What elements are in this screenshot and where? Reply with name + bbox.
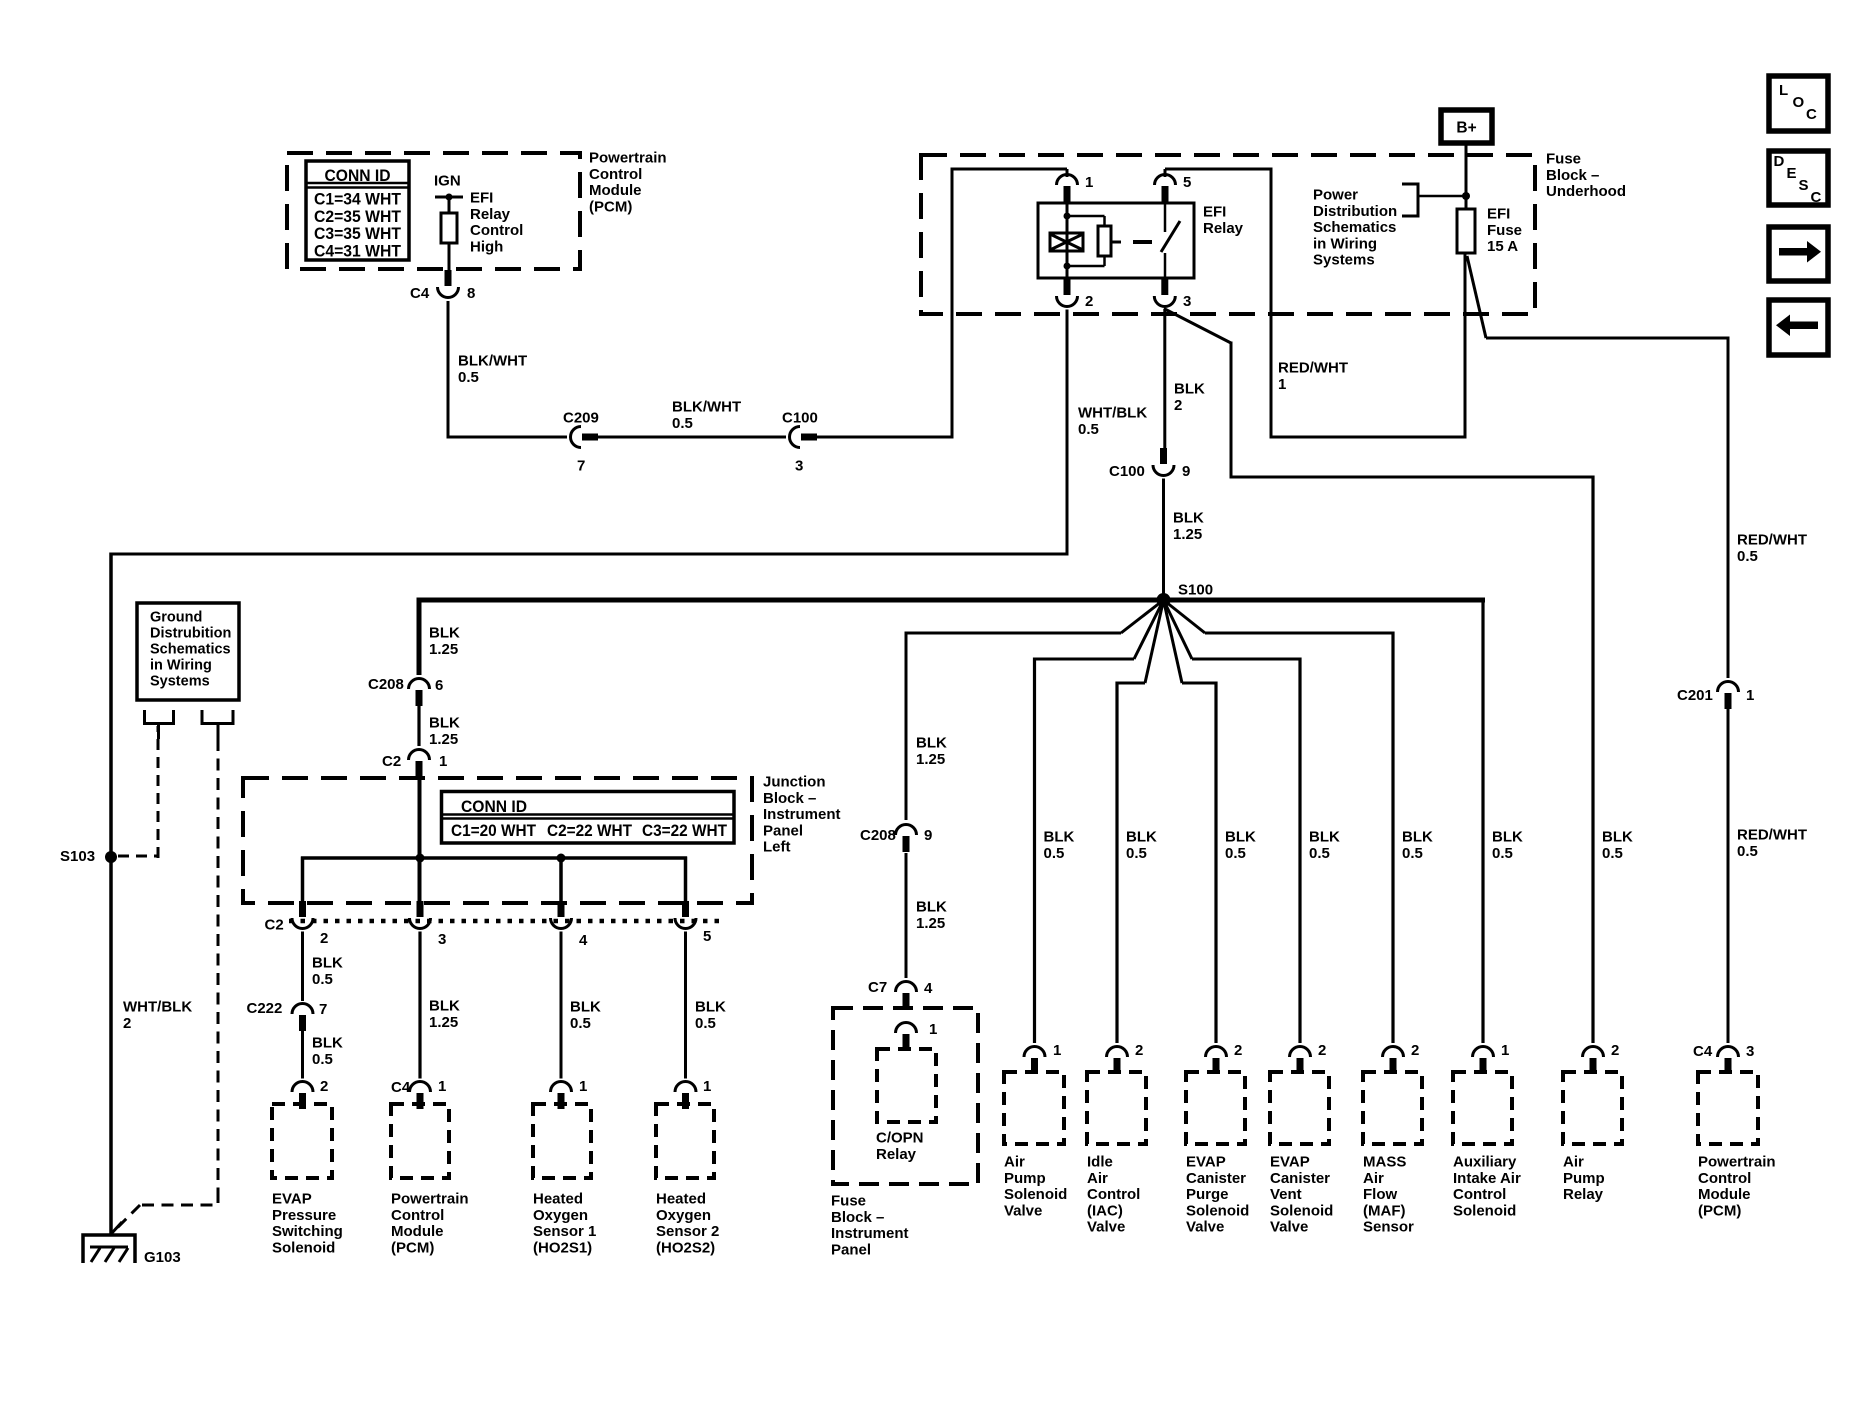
svg-text:Solenoid: Solenoid <box>1186 1202 1249 1219</box>
wire: short drop to relay pin 1 <box>1066 169 1069 177</box>
svg-text:2: 2 <box>1085 293 1093 310</box>
wire: S100 bus left to junction block column <box>417 598 1167 603</box>
svg-text:Auxiliary: Auxiliary <box>1453 1154 1517 1171</box>
svg-text:(MAF): (MAF) <box>1363 1202 1405 1219</box>
svg-text:1: 1 <box>579 1078 587 1095</box>
svg-text:BLK: BLK <box>1602 829 1633 846</box>
svg-text:Module: Module <box>589 182 642 199</box>
wire WHT/BLK 0.5: relay pin 2 down and across to S103 branch <box>1066 310 1069 556</box>
svg-text:Solenoid: Solenoid <box>272 1239 335 1256</box>
svg-text:Sensor 2: Sensor 2 <box>656 1223 719 1240</box>
table CONN ID (junction block): header separator <box>442 813 735 816</box>
component box: Heated Oxygen Sensor 1 <box>533 1104 591 1178</box>
connector air pump relay pin 2 <box>1583 1047 1604 1058</box>
wire: parallel resistor branch bottom <box>1103 256 1106 266</box>
switch: relay contact upper stub from pin 5 <box>1164 203 1167 232</box>
svg-text:L: L <box>1779 82 1788 99</box>
component box: Air Pump Relay <box>1563 1072 1622 1144</box>
svg-text:High: High <box>470 238 503 255</box>
svg-text:1.25: 1.25 <box>429 641 458 658</box>
svg-text:Canister: Canister <box>1270 1170 1330 1187</box>
svg-text:5: 5 <box>1183 174 1191 191</box>
svg-text:BLK: BLK <box>1044 829 1075 846</box>
svg-text:O: O <box>1793 94 1805 111</box>
wire BLK 1.25 C208/9 down to C7/4 <box>905 853 908 978</box>
wire WHT/BLK 2 left vertical to ground <box>109 553 113 1236</box>
svg-text:in Wiring: in Wiring <box>1313 235 1377 252</box>
svg-text:Switching: Switching <box>272 1223 343 1240</box>
svg-text:Distribution: Distribution <box>1313 203 1397 220</box>
svg-text:1: 1 <box>703 1078 711 1095</box>
wire: air pump relay column vertical <box>1591 476 1594 1044</box>
svg-text:1: 1 <box>1278 376 1286 393</box>
svg-text:(PCM): (PCM) <box>391 1239 434 1256</box>
node IGN junction dot <box>446 194 453 201</box>
wire: relay pin 3 diagonal branch to air pump relay feed <box>1164 309 1231 344</box>
svg-text:3: 3 <box>795 458 803 475</box>
svg-text:EFI: EFI <box>470 190 493 207</box>
svg-text:BLK: BLK <box>312 1035 343 1052</box>
relay coil symbol (rect with X) <box>1050 233 1083 251</box>
wire BLK 0.5 HO2S1 column down <box>560 932 563 1079</box>
svg-text:1: 1 <box>1746 687 1754 704</box>
svg-text:0.5: 0.5 <box>458 369 479 386</box>
svg-text:Solenoid: Solenoid <box>1453 1202 1516 1219</box>
connector relay pin 2 <box>1064 279 1071 295</box>
svg-text:0.5: 0.5 <box>1402 845 1423 862</box>
svg-text:4: 4 <box>579 932 588 949</box>
table CONN ID (PCM): header separator double line <box>306 182 409 185</box>
svg-text:Powertrain: Powertrain <box>391 1191 469 1208</box>
svg-text:Distrubition: Distrubition <box>150 626 231 642</box>
wire: S100 fan to EVAP vent column <box>1164 600 1193 659</box>
svg-text:BLK: BLK <box>429 715 460 732</box>
connector C2 pin 2 (junction block) <box>299 901 306 917</box>
nav icon: DESC box <box>1769 151 1828 205</box>
wire: parallel resistor branch top <box>1067 215 1105 218</box>
svg-text:Canister: Canister <box>1186 1170 1246 1187</box>
svg-text:BLK: BLK <box>1225 829 1256 846</box>
svg-text:C3=22 WHT: C3=22 WHT <box>642 821 728 840</box>
svg-text:Fuse: Fuse <box>1487 222 1522 239</box>
svg-text:0.5: 0.5 <box>570 1015 591 1032</box>
module box: Fuse Block - Instrument Panel dashed outline <box>833 1008 978 1184</box>
connector IAC valve pin 2 <box>1107 1047 1128 1058</box>
svg-text:6: 6 <box>435 677 443 694</box>
svg-text:C4: C4 <box>1693 1043 1713 1060</box>
svg-text:Sensor: Sensor <box>1363 1219 1414 1236</box>
svg-text:Ground: Ground <box>150 610 202 626</box>
fuse EFI Fuse 15 A element <box>1457 209 1475 253</box>
connector C201 pin 1 <box>1718 682 1739 693</box>
svg-text:2: 2 <box>1135 1042 1143 1059</box>
connector C2 pin 4 (junction block) <box>558 901 565 917</box>
switch: relay contact blade <box>1161 221 1180 252</box>
wire BLK 0.5 from C222/7 down <box>301 1031 304 1079</box>
svg-text:Air: Air <box>1004 1154 1025 1171</box>
connector C2 pin 5 (junction block) <box>682 901 689 917</box>
connector C208 pin 9 <box>896 825 917 836</box>
svg-text:Module: Module <box>1698 1186 1751 1203</box>
svg-text:WHT/BLK: WHT/BLK <box>1078 405 1147 422</box>
wire: driver element down to PCM box edge / C4 pin 8 <box>448 243 451 270</box>
node: bus junction at pin 4 column <box>557 854 566 863</box>
svg-text:0.5: 0.5 <box>312 971 333 988</box>
node splice S100 <box>1157 593 1171 607</box>
module box: Ground Distribution Schematics reference box <box>137 603 239 700</box>
svg-text:C: C <box>1811 189 1822 206</box>
svg-text:0.5: 0.5 <box>1737 548 1758 565</box>
connector C222 pin 7 <box>292 1004 313 1014</box>
svg-text:BLK: BLK <box>916 899 947 916</box>
svg-text:Heated: Heated <box>533 1191 583 1208</box>
svg-text:Schematics: Schematics <box>150 642 231 658</box>
svg-text:Pump: Pump <box>1004 1170 1046 1187</box>
wire BLK 1.25: C100 pin 9 down to splice S100 <box>1162 479 1165 601</box>
connector C100 pin 9 (inline) <box>1160 448 1167 464</box>
svg-text:in Wiring: in Wiring <box>150 658 212 674</box>
connector C4 pin 8 (PCM output) <box>445 270 452 286</box>
svg-text:Air: Air <box>1087 1170 1108 1187</box>
svg-text:0.5: 0.5 <box>1602 845 1623 862</box>
connector HO2S2 pin 1 <box>675 1082 696 1093</box>
svg-text:C1=34 WHT: C1=34 WHT <box>314 190 402 209</box>
svg-text:C4: C4 <box>391 1079 411 1096</box>
svg-text:RED/WHT: RED/WHT <box>1278 360 1348 377</box>
svg-text:Schematics: Schematics <box>1313 219 1396 236</box>
node: relay internal junction top <box>1064 213 1071 220</box>
svg-text:C100: C100 <box>782 410 818 427</box>
svg-text:S: S <box>1799 177 1809 194</box>
svg-text:Fuse: Fuse <box>1546 151 1581 168</box>
svg-text:Powertrain: Powertrain <box>1698 1154 1776 1171</box>
svg-text:1.25: 1.25 <box>916 915 945 932</box>
svg-text:1: 1 <box>439 753 447 770</box>
svg-text:Oxygen: Oxygen <box>656 1207 711 1224</box>
table CONN ID (junction block): outer frame <box>442 792 735 844</box>
svg-text:Block –: Block – <box>831 1209 884 1226</box>
svg-text:Power: Power <box>1313 187 1358 204</box>
wire: dashed link S103 to left bracket <box>118 855 158 858</box>
svg-text:8: 8 <box>467 285 475 302</box>
svg-text:3: 3 <box>1746 1043 1754 1060</box>
component box: Mass Air Flow Sensor <box>1363 1072 1422 1144</box>
svg-text:D: D <box>1774 153 1785 170</box>
connector EVAP pressure switching solenoid pin 2 <box>292 1082 313 1093</box>
svg-text:B+: B+ <box>1456 120 1476 137</box>
wire RED/WHT 0.5 down to PCM C4 pin 3 <box>1727 709 1730 1043</box>
svg-text:2: 2 <box>320 1078 328 1095</box>
svg-text:BLK: BLK <box>916 735 947 752</box>
connector C7 pin 4 <box>896 982 917 993</box>
connector C208 pin 6 <box>409 679 430 690</box>
svg-text:Vent: Vent <box>1270 1186 1302 1203</box>
svg-text:Idle: Idle <box>1087 1154 1113 1171</box>
wire: horizontal run to C209 <box>447 436 450 438</box>
svg-text:Valve: Valve <box>1004 1202 1042 1219</box>
wire: actuator dashed link to switch <box>1133 240 1152 244</box>
wire BLK 2: relay pin 3 down to C100 pin 9 <box>1163 310 1166 449</box>
power terminal B+ box <box>1441 110 1492 143</box>
node splice S103 <box>105 851 117 863</box>
svg-text:Solenoid: Solenoid <box>1270 1202 1333 1219</box>
svg-text:E: E <box>1787 165 1797 182</box>
svg-text:9: 9 <box>1182 463 1190 480</box>
svg-text:RED/WHT: RED/WHT <box>1737 827 1807 844</box>
module box: Fuse Block - Underhood dashed outline <box>921 155 1535 314</box>
wire: dashed link right bracket down to G103 <box>217 739 220 1191</box>
svg-text:Systems: Systems <box>1313 252 1375 269</box>
svg-text:Pressure: Pressure <box>272 1207 336 1224</box>
svg-text:0.5: 0.5 <box>1492 845 1513 862</box>
svg-text:BLK: BLK <box>1402 829 1433 846</box>
svg-text:RED/WHT: RED/WHT <box>1737 532 1807 549</box>
svg-text:C2=22 WHT: C2=22 WHT <box>547 821 633 840</box>
svg-text:Heated: Heated <box>656 1191 706 1208</box>
component box: Auxiliary Intake Air Control Solenoid <box>1453 1072 1512 1144</box>
component box: EVAP Canister Vent Solenoid Valve <box>1270 1072 1329 1144</box>
svg-text:BLK: BLK <box>429 998 460 1015</box>
nav icon: next arrow box <box>1769 227 1828 281</box>
wire: S100 fan to IAC column <box>1145 600 1164 683</box>
svg-text:Control: Control <box>470 222 523 239</box>
svg-text:1.25: 1.25 <box>916 751 945 768</box>
svg-text:0.5: 0.5 <box>1737 843 1758 860</box>
svg-text:Junction: Junction <box>763 774 826 791</box>
svg-text:S100: S100 <box>1178 582 1213 599</box>
svg-text:C222: C222 <box>247 1000 283 1017</box>
svg-text:5: 5 <box>703 928 711 945</box>
connector C209 pin 7 (inline) <box>571 427 582 448</box>
svg-text:1: 1 <box>438 1078 446 1095</box>
svg-text:3: 3 <box>1183 293 1191 310</box>
connector PCM C4 pin 1 <box>410 1082 431 1093</box>
svg-text:1: 1 <box>1053 1042 1061 1059</box>
svg-text:Control: Control <box>1698 1170 1751 1187</box>
svg-text:EVAP: EVAP <box>272 1191 312 1208</box>
svg-text:C100: C100 <box>1109 463 1145 480</box>
wire BLK 0.5 from C2/2 to C222/7 <box>301 932 304 1002</box>
svg-text:0.5: 0.5 <box>1309 845 1330 862</box>
wire: dotted connector row line C2 <box>289 919 721 924</box>
svg-text:Control: Control <box>391 1207 444 1224</box>
node: bus junction at pin 3 column <box>416 854 425 863</box>
svg-text:Panel: Panel <box>763 822 803 839</box>
svg-text:C209: C209 <box>563 410 599 427</box>
module box: Junction Block - Instrument Panel Left dashed outline <box>243 778 752 903</box>
connector EVAP canister vent solenoid pin 2 <box>1290 1047 1311 1058</box>
svg-text:BLK: BLK <box>570 999 601 1016</box>
svg-text:0.5: 0.5 <box>1225 845 1246 862</box>
svg-text:CONN ID: CONN ID <box>325 166 391 185</box>
wire RED/WHT 0.5: fuse diagonal feed to right side <box>1467 256 1486 338</box>
svg-text:1: 1 <box>1085 174 1093 191</box>
svg-text:Control: Control <box>589 166 642 183</box>
wire: S100 fan to MAF column <box>1164 600 1206 633</box>
relay box: C/OPN Relay dashed outline <box>877 1049 936 1122</box>
svg-text:2: 2 <box>1411 1042 1419 1059</box>
svg-text:BLK: BLK <box>1492 829 1523 846</box>
svg-text:S103: S103 <box>60 848 95 865</box>
wire: IGN dot down to driver element <box>448 197 451 213</box>
svg-text:Pump: Pump <box>1563 1170 1605 1187</box>
svg-text:Underhood: Underhood <box>1546 183 1626 200</box>
svg-text:Block –: Block – <box>763 790 816 807</box>
wire BLK 1.25 segment C208/6 to C2/1 <box>417 706 420 746</box>
svg-text:Powertrain: Powertrain <box>589 150 667 167</box>
svg-text:Air: Air <box>1363 1170 1384 1187</box>
svg-text:2: 2 <box>1234 1042 1242 1059</box>
node: junction of power distribution tap <box>1462 192 1470 200</box>
svg-text:1: 1 <box>1501 1042 1509 1059</box>
svg-text:0.5: 0.5 <box>312 1051 333 1068</box>
svg-text:BLK: BLK <box>695 999 726 1016</box>
svg-text:BLK: BLK <box>1126 829 1157 846</box>
wire: C100 pin3 to relay pin 1 riser <box>817 436 954 439</box>
connector relay pin 1 <box>1057 175 1078 186</box>
wire: B+ down to EFI fuse <box>1465 143 1468 209</box>
svg-text:Relay: Relay <box>1203 220 1244 237</box>
svg-text:C201: C201 <box>1677 687 1713 704</box>
svg-text:BLK: BLK <box>1309 829 1340 846</box>
svg-text:Block –: Block – <box>1546 167 1599 184</box>
bracket: ground distribution right tab <box>202 710 233 724</box>
svg-text:BLK: BLK <box>312 955 343 972</box>
svg-text:BLK: BLK <box>429 625 460 642</box>
svg-text:Purge: Purge <box>1186 1186 1229 1203</box>
connector C2 pin 3 (junction block) <box>417 901 424 917</box>
wire: junction block internal column from C2/1 down to pin 3 <box>418 777 422 901</box>
svg-text:(HO2S1): (HO2S1) <box>533 1239 592 1256</box>
svg-text:C7: C7 <box>868 979 887 996</box>
connector C2 pin 1 <box>409 750 430 761</box>
svg-text:C2=35 WHT: C2=35 WHT <box>314 207 402 226</box>
svg-text:7: 7 <box>577 458 585 475</box>
connector fuse block IP pin 1 <box>896 1023 917 1034</box>
svg-text:0.5: 0.5 <box>1126 845 1147 862</box>
component box: Idle Air Control Valve <box>1087 1072 1146 1144</box>
svg-text:2: 2 <box>1174 397 1182 414</box>
svg-text:C3=35 WHT: C3=35 WHT <box>314 224 402 243</box>
svg-text:WHT/BLK: WHT/BLK <box>123 999 192 1016</box>
svg-text:EFI: EFI <box>1487 206 1510 223</box>
svg-text:Systems: Systems <box>150 674 210 690</box>
svg-text:Control: Control <box>1087 1186 1140 1203</box>
svg-text:Valve: Valve <box>1186 1219 1224 1236</box>
node: relay internal junction bottom <box>1064 263 1071 270</box>
svg-text:C: C <box>1806 106 1817 123</box>
table CONN ID (PCM): outer frame <box>306 161 409 260</box>
svg-text:2: 2 <box>320 930 328 947</box>
connector relay pin 3 <box>1161 279 1168 295</box>
wire BLK 0.5 HO2S2 column down <box>684 932 687 1079</box>
svg-text:C208: C208 <box>860 827 896 844</box>
svg-text:(PCM): (PCM) <box>589 198 632 215</box>
svg-text:Solenoid: Solenoid <box>1004 1186 1067 1203</box>
component box: Heated Oxygen Sensor 2 <box>656 1104 714 1178</box>
svg-text:Intake Air: Intake Air <box>1453 1170 1521 1187</box>
svg-text:C4: C4 <box>410 285 430 302</box>
svg-text:C/OPN: C/OPN <box>876 1130 924 1147</box>
svg-text:Relay: Relay <box>1563 1186 1604 1203</box>
svg-text:MASS: MASS <box>1363 1154 1406 1171</box>
svg-text:7: 7 <box>319 1001 327 1018</box>
svg-text:(PCM): (PCM) <box>1698 1202 1741 1219</box>
bracket: ground distribution left tab <box>145 710 174 724</box>
svg-text:Relay: Relay <box>470 206 511 223</box>
wire BLK/WHT 0.5 from C4 pin 8 down <box>447 301 450 437</box>
svg-text:2: 2 <box>1318 1042 1326 1059</box>
wire: S100 bus right to auxiliary intake column <box>1164 598 1486 603</box>
wire: S100 fan to air pump solenoid column <box>1134 600 1164 659</box>
connector HO2S1 pin 1 <box>551 1082 572 1093</box>
svg-text:Flow: Flow <box>1363 1186 1397 1203</box>
svg-text:IGN: IGN <box>434 173 461 190</box>
switch: relay contact lower stub to pin 3 <box>1164 253 1167 278</box>
svg-text:Fuse: Fuse <box>831 1193 866 1210</box>
wire BLK 1.25 PCM column down <box>418 932 421 1079</box>
svg-text:Instrument: Instrument <box>763 806 841 823</box>
svg-text:Relay: Relay <box>876 1146 917 1163</box>
svg-text:Sensor 1: Sensor 1 <box>533 1223 596 1240</box>
component box: EVAP Pressure Switching Solenoid <box>272 1104 332 1178</box>
reference bracket: power distribution schematics <box>1402 184 1418 216</box>
svg-text:C2: C2 <box>265 917 284 934</box>
svg-text:1.25: 1.25 <box>1173 526 1202 543</box>
component box: Air Pump Solenoid Valve <box>1004 1072 1064 1144</box>
nav icon: previous arrow box <box>1769 300 1828 355</box>
module box: Powertrain Control Module (PCM) dashed outline top-left <box>287 153 580 269</box>
wire: IGN node horizontal bar inside PCM <box>435 196 463 199</box>
svg-text:BLK/WHT: BLK/WHT <box>672 399 741 416</box>
svg-text:Control: Control <box>1453 1186 1506 1203</box>
wire RED/WHT 1: relay pin 5 to fuse bottom loop <box>1165 168 1271 171</box>
svg-text:Instrument: Instrument <box>831 1225 909 1242</box>
svg-text:0.5: 0.5 <box>672 415 693 432</box>
svg-text:15 A: 15 A <box>1487 238 1518 255</box>
svg-text:C208: C208 <box>368 676 404 693</box>
svg-text:EVAP: EVAP <box>1186 1154 1226 1171</box>
svg-text:CONN ID: CONN ID <box>461 797 527 816</box>
svg-text:Panel: Panel <box>831 1241 871 1258</box>
svg-text:BLK/WHT: BLK/WHT <box>458 353 527 370</box>
svg-text:BLK: BLK <box>1174 381 1205 398</box>
svg-text:4: 4 <box>924 980 933 997</box>
connector relay pin 5 <box>1155 175 1176 186</box>
wire: junction block internal bus <box>301 856 687 860</box>
svg-text:Air: Air <box>1563 1154 1584 1171</box>
svg-text:Module: Module <box>391 1223 444 1240</box>
resistor: EFI relay control driver element <box>441 213 457 243</box>
svg-text:Oxygen: Oxygen <box>533 1207 588 1224</box>
svg-text:9: 9 <box>924 827 932 844</box>
svg-text:BLK: BLK <box>1173 510 1204 527</box>
connector auxiliary intake air control solenoid pin 1 <box>1473 1047 1494 1058</box>
connector C100 pin 3 (inline) <box>790 427 801 448</box>
connector EVAP canister purge solenoid pin 2 <box>1206 1047 1227 1058</box>
svg-text:0.5: 0.5 <box>1078 421 1099 438</box>
svg-text:2: 2 <box>123 1015 131 1032</box>
svg-text:3: 3 <box>438 931 446 948</box>
connector air pump solenoid valve pin 1 <box>1024 1047 1045 1058</box>
connector MAF sensor pin 2 <box>1383 1047 1404 1058</box>
svg-text:G103: G103 <box>144 1249 181 1266</box>
svg-text:Valve: Valve <box>1087 1219 1125 1236</box>
connector PCM C4 pin 3 (right) <box>1718 1047 1739 1058</box>
svg-text:C1=20 WHT: C1=20 WHT <box>451 821 537 840</box>
svg-text:1.25: 1.25 <box>429 1014 458 1031</box>
component box: Powertrain Control Module (PCM) right <box>1698 1072 1758 1144</box>
